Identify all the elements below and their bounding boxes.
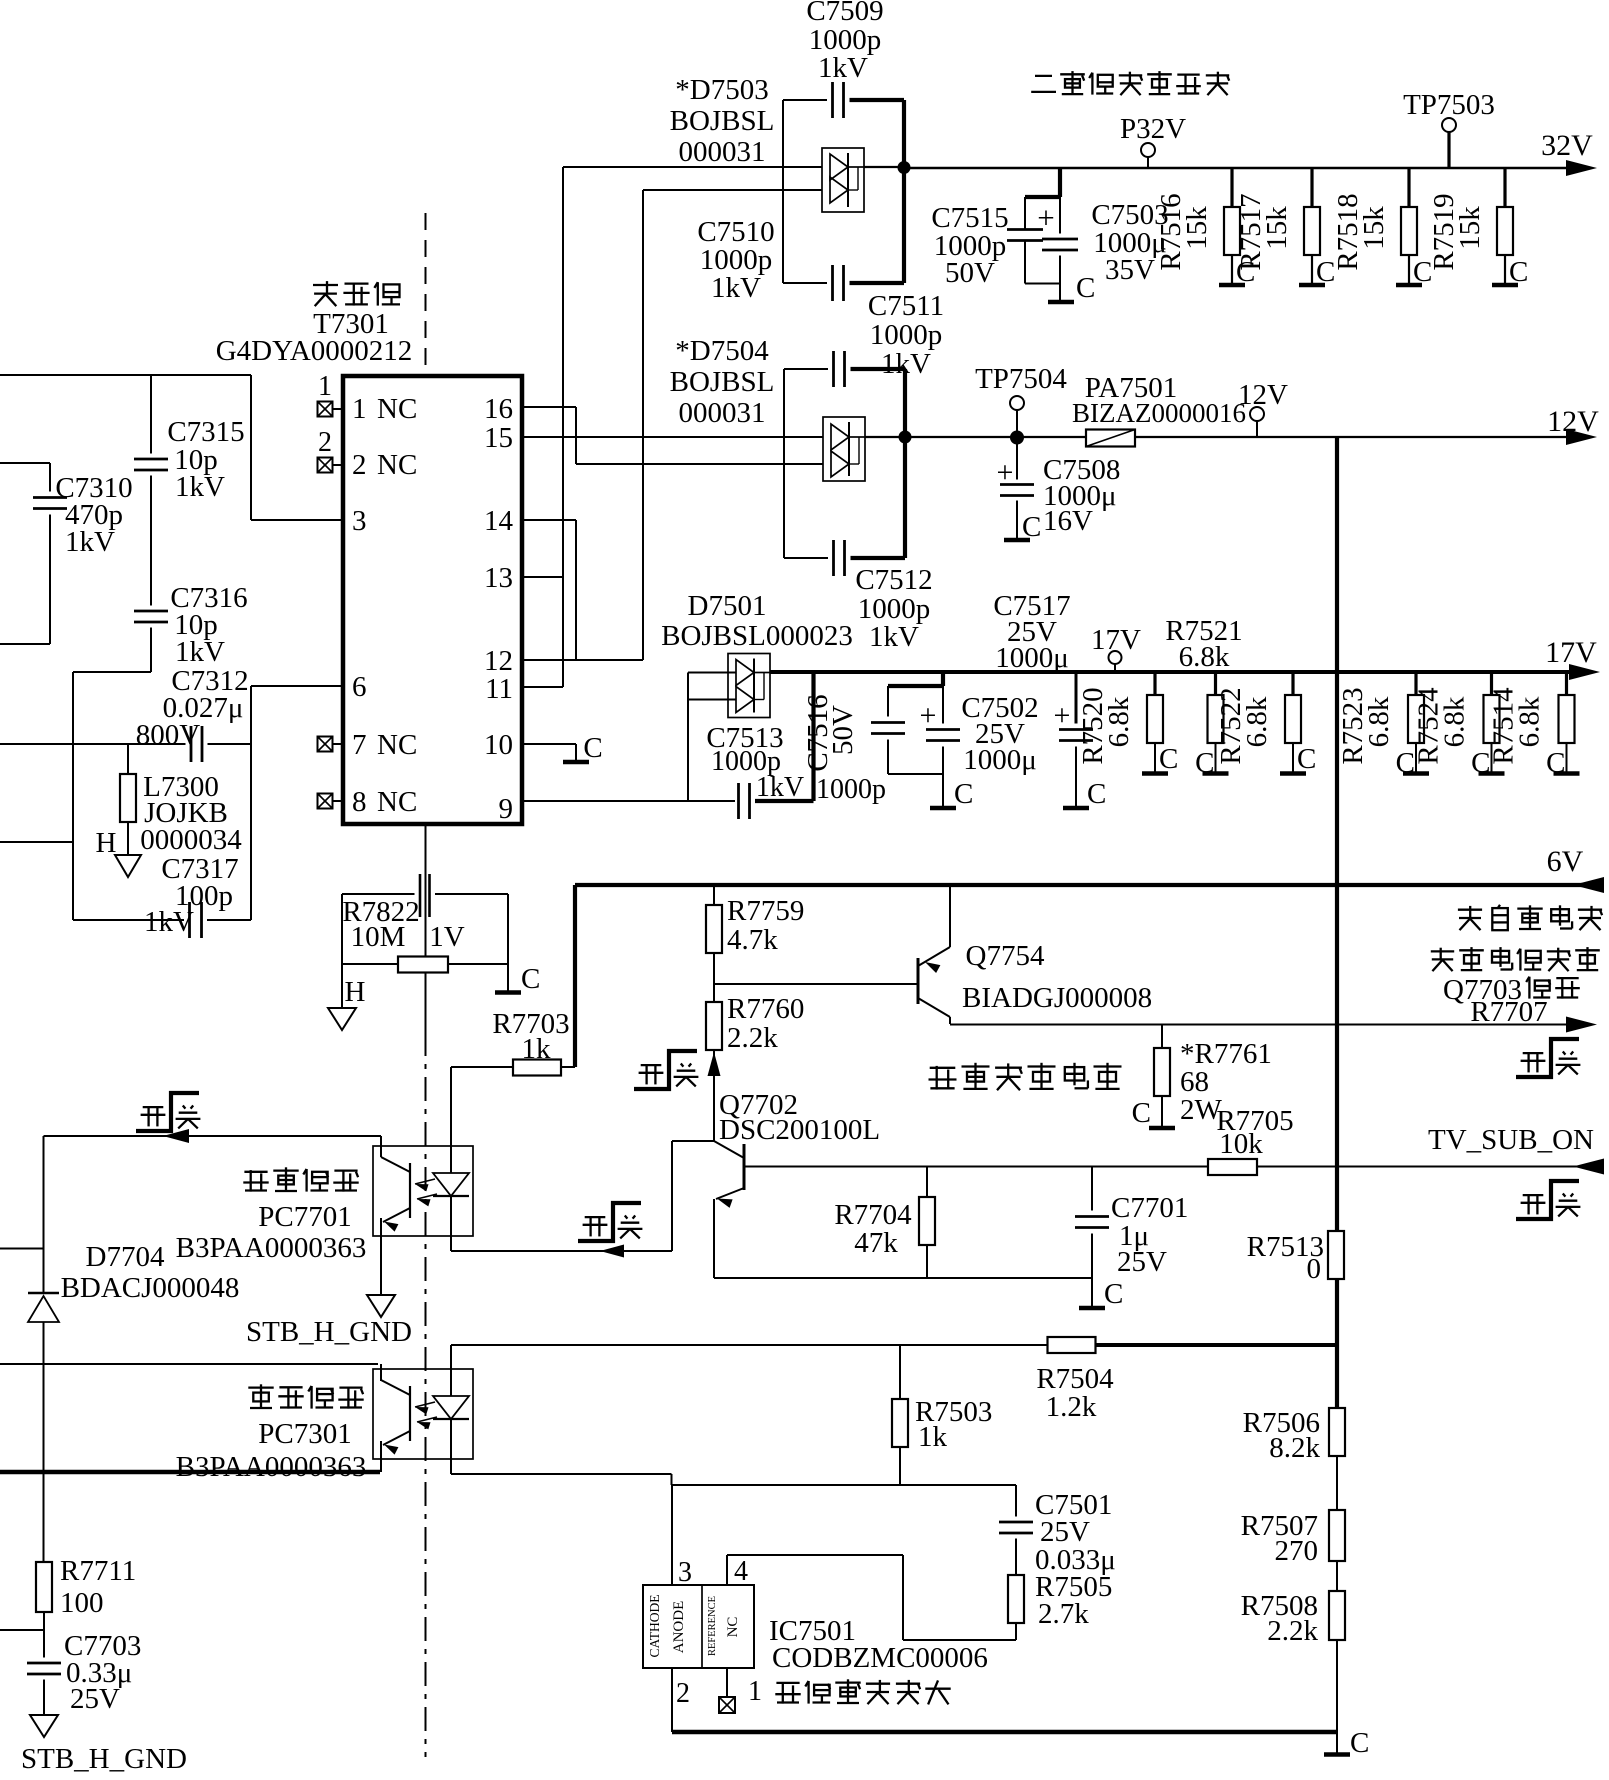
svg-text:17V: 17V bbox=[1545, 636, 1597, 669]
svg-text:*D7503: *D7503 bbox=[675, 74, 768, 106]
svg-text:1: 1 bbox=[318, 371, 332, 402]
svg-text:15: 15 bbox=[484, 422, 513, 454]
svg-text:7: 7 bbox=[352, 729, 367, 761]
svg-text:*D7504: *D7504 bbox=[675, 335, 769, 367]
svg-text:STB_H_GND: STB_H_GND bbox=[246, 1316, 412, 1348]
svg-text:D7501: D7501 bbox=[688, 590, 767, 622]
svg-text:1: 1 bbox=[352, 393, 367, 425]
svg-text:C: C bbox=[1076, 272, 1095, 304]
svg-text:1.2k: 1.2k bbox=[1046, 1391, 1097, 1423]
svg-text:ANODE: ANODE bbox=[671, 1601, 687, 1654]
svg-text:12V: 12V bbox=[1547, 405, 1599, 438]
svg-text:0: 0 bbox=[1307, 1253, 1322, 1285]
svg-text:32V: 32V bbox=[1541, 129, 1593, 162]
svg-text:2.7k: 2.7k bbox=[1038, 1598, 1089, 1630]
svg-text:8: 8 bbox=[352, 786, 367, 818]
svg-text:R7711: R7711 bbox=[60, 1555, 136, 1587]
svg-text:50V: 50V bbox=[945, 257, 995, 289]
svg-text:TP7504: TP7504 bbox=[975, 363, 1067, 395]
svg-text:C: C bbox=[1087, 778, 1106, 810]
svg-text:6.8k: 6.8k bbox=[1363, 696, 1395, 747]
svg-text:4: 4 bbox=[734, 1556, 748, 1587]
svg-text:STB_H_GND: STB_H_GND bbox=[21, 1743, 187, 1775]
svg-text:BDACJ000048: BDACJ000048 bbox=[61, 1272, 240, 1304]
svg-text:+: + bbox=[920, 699, 937, 732]
svg-text:1000μ: 1000μ bbox=[995, 642, 1069, 674]
svg-text:C7512: C7512 bbox=[855, 564, 932, 596]
svg-text:B3PAA0000363: B3PAA0000363 bbox=[176, 1451, 367, 1483]
svg-text:H: H bbox=[96, 827, 117, 859]
svg-text:15k: 15k bbox=[1261, 206, 1293, 250]
svg-text:1000μ: 1000μ bbox=[963, 744, 1037, 776]
svg-text:25V: 25V bbox=[70, 1683, 120, 1715]
svg-text:C7511: C7511 bbox=[868, 290, 944, 322]
svg-text:1000p: 1000p bbox=[816, 774, 886, 805]
svg-text:C: C bbox=[1104, 1278, 1123, 1310]
svg-text:+: + bbox=[1054, 699, 1071, 732]
svg-text:R7707: R7707 bbox=[1470, 996, 1547, 1028]
svg-text:1kV: 1kV bbox=[711, 272, 761, 304]
svg-text:TP7503: TP7503 bbox=[1403, 89, 1495, 121]
svg-text:1: 1 bbox=[748, 1676, 762, 1707]
svg-text:NC: NC bbox=[377, 393, 417, 425]
svg-text:PC7301: PC7301 bbox=[258, 1418, 351, 1450]
svg-text:25V: 25V bbox=[1117, 1246, 1167, 1278]
svg-text:47k: 47k bbox=[854, 1227, 898, 1259]
svg-text:50V: 50V bbox=[827, 705, 859, 755]
svg-text:8.2k: 8.2k bbox=[1269, 1432, 1320, 1464]
svg-text:10M: 10M bbox=[351, 921, 406, 953]
svg-text:NC: NC bbox=[377, 729, 417, 761]
svg-text:2.2k: 2.2k bbox=[727, 1022, 778, 1054]
svg-text:C: C bbox=[521, 963, 540, 995]
svg-text:R7759: R7759 bbox=[727, 895, 804, 927]
svg-text:11: 11 bbox=[485, 673, 513, 705]
svg-text:G4DYA0000212: G4DYA0000212 bbox=[216, 335, 413, 367]
svg-text:P32V: P32V bbox=[1120, 113, 1186, 145]
svg-text:6: 6 bbox=[352, 671, 367, 703]
svg-text:2: 2 bbox=[352, 449, 367, 481]
svg-text:C: C bbox=[1350, 1727, 1369, 1759]
svg-text:1000p: 1000p bbox=[870, 319, 943, 351]
svg-text:B3PAA0000363: B3PAA0000363 bbox=[176, 1232, 367, 1264]
svg-text:1k: 1k bbox=[522, 1033, 552, 1065]
svg-text:BOJBSL: BOJBSL bbox=[670, 105, 775, 137]
svg-text:2: 2 bbox=[318, 427, 332, 458]
svg-text:1kV: 1kV bbox=[175, 636, 225, 668]
svg-text:BIADGJ000008: BIADGJ000008 bbox=[962, 982, 1152, 1014]
svg-text:1kV: 1kV bbox=[869, 621, 919, 653]
svg-text:000031: 000031 bbox=[679, 136, 766, 168]
svg-text:BOJBSL: BOJBSL bbox=[670, 366, 775, 398]
svg-text:0000034: 0000034 bbox=[140, 824, 242, 856]
svg-text:1kV: 1kV bbox=[756, 772, 804, 803]
svg-text:2: 2 bbox=[676, 1678, 690, 1709]
svg-text:+: + bbox=[1037, 200, 1054, 235]
svg-text:CATHODE: CATHODE bbox=[647, 1595, 662, 1658]
svg-text:14: 14 bbox=[484, 505, 514, 537]
svg-text:BIZAZ0000016: BIZAZ0000016 bbox=[1072, 398, 1246, 428]
svg-text:TV_SUB_ON: TV_SUB_ON bbox=[1428, 1124, 1594, 1156]
svg-text:6.8k: 6.8k bbox=[1103, 696, 1135, 747]
svg-text:BOJBSL000023: BOJBSL000023 bbox=[661, 620, 853, 652]
svg-text:3: 3 bbox=[352, 505, 367, 537]
svg-text:10k: 10k bbox=[1219, 1128, 1263, 1160]
svg-text:1kV: 1kV bbox=[175, 471, 225, 503]
svg-text:6.8k: 6.8k bbox=[1179, 641, 1230, 673]
svg-text:15k: 15k bbox=[1358, 206, 1390, 250]
svg-text:NC: NC bbox=[377, 786, 417, 818]
svg-text:12V: 12V bbox=[1238, 379, 1288, 411]
svg-text:C: C bbox=[1022, 511, 1041, 543]
svg-text:270: 270 bbox=[1275, 1535, 1319, 1567]
svg-text:9: 9 bbox=[499, 793, 514, 825]
svg-text:35V: 35V bbox=[1105, 254, 1155, 286]
svg-text:1k: 1k bbox=[918, 1421, 948, 1453]
svg-text:16: 16 bbox=[484, 393, 513, 425]
svg-text:DSC200100L: DSC200100L bbox=[719, 1114, 880, 1146]
svg-text:13: 13 bbox=[484, 562, 513, 594]
svg-text:C: C bbox=[1546, 747, 1565, 779]
svg-text:1kV: 1kV bbox=[65, 526, 115, 558]
svg-text:Q7754: Q7754 bbox=[966, 940, 1045, 972]
svg-text:PC7701: PC7701 bbox=[258, 1201, 351, 1233]
svg-text:REFERENCE: REFERENCE bbox=[707, 1596, 718, 1656]
svg-text:CODBZMC00006: CODBZMC00006 bbox=[772, 1642, 988, 1674]
svg-text:10: 10 bbox=[484, 729, 513, 761]
svg-text:C: C bbox=[1132, 1097, 1151, 1129]
svg-text:NC: NC bbox=[725, 1617, 741, 1638]
svg-text:6V: 6V bbox=[1547, 845, 1584, 878]
svg-text:000031: 000031 bbox=[679, 397, 766, 429]
svg-text:R7760: R7760 bbox=[727, 993, 804, 1025]
svg-text:C: C bbox=[583, 732, 602, 764]
svg-text:800V: 800V bbox=[136, 719, 201, 751]
svg-text:4.7k: 4.7k bbox=[727, 924, 778, 956]
svg-text:6.8k: 6.8k bbox=[1439, 696, 1471, 747]
svg-text:15k: 15k bbox=[1454, 206, 1486, 250]
svg-text:H: H bbox=[345, 976, 366, 1008]
svg-text:100: 100 bbox=[60, 1587, 104, 1619]
svg-text:NC: NC bbox=[377, 449, 417, 481]
svg-text:C: C bbox=[954, 778, 973, 810]
svg-text:3: 3 bbox=[678, 1557, 692, 1588]
svg-text:6.8k: 6.8k bbox=[1241, 696, 1273, 747]
svg-text:C: C bbox=[1297, 743, 1316, 775]
svg-text:1kV: 1kV bbox=[818, 52, 868, 84]
svg-text:16V: 16V bbox=[1043, 505, 1093, 537]
svg-text:2.2k: 2.2k bbox=[1267, 1615, 1318, 1647]
svg-text:6.8k: 6.8k bbox=[1514, 696, 1546, 747]
svg-text:D7704: D7704 bbox=[86, 1241, 165, 1273]
svg-text:1kV: 1kV bbox=[144, 906, 194, 938]
svg-text:C: C bbox=[1195, 747, 1214, 779]
svg-text:1V: 1V bbox=[429, 921, 465, 953]
svg-text:C: C bbox=[1509, 256, 1528, 288]
svg-text:C7509: C7509 bbox=[806, 0, 883, 27]
svg-text:C: C bbox=[1159, 743, 1178, 775]
svg-text:15k: 15k bbox=[1181, 206, 1213, 250]
